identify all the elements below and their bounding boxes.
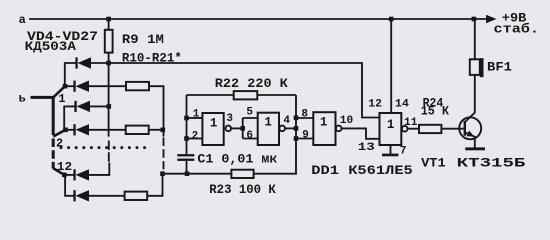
svg-text:8: 8 (301, 108, 308, 120)
wire diode to R10 (89, 85, 126, 87)
capacitor C1 plates (177, 154, 194, 156)
resistor R21 (row12) (125, 192, 148, 200)
node: junction dot row2/x163 bus (161, 128, 166, 133)
wire R23 to node x296 (254, 95, 296, 174)
transistor VT1 base bar (464, 121, 466, 136)
svg-text:VT1: VT1 (421, 156, 446, 171)
op-amp gate DD1.3 box (313, 112, 335, 145)
gate DD1.3 output bubble (336, 126, 342, 132)
wire diode to R21 (89, 195, 125, 197)
wire tap12 level row (64, 174, 74, 176)
node: junction dot tap2 (63, 128, 68, 133)
resistor R11 (row2) (126, 126, 149, 134)
svg-text:15 К: 15 К (421, 103, 449, 118)
wire diode anode to x108 bus corner (89, 163, 109, 175)
omission dots row (60, 146, 147, 149)
wire bus vertical thick dashed (52, 139, 55, 169)
wire x163 bus dashed (163, 138, 165, 170)
wire diode anode to rail2 dot (91, 62, 109, 64)
wire ь lead thick (31, 96, 54, 99)
node: junction dot on x108 bus (107, 104, 112, 109)
wire tap1 up-stub (65, 63, 76, 86)
svg-text:C1 0,01 мк: C1 0,01 мк (197, 151, 277, 166)
wire R22 feedback left (187, 94, 234, 96)
wire tap2 up-stub (64, 106, 75, 129)
wire gateD out to R24 (408, 128, 420, 130)
wire R22 right (257, 94, 296, 96)
wire x108 bus solid (108, 63, 110, 137)
gate DD1.4 output bubble (402, 126, 408, 132)
wire gateA out to connector (230, 127, 243, 129)
op-amp gate DD1.1 box (202, 113, 223, 145)
resistor R24 (419, 125, 441, 133)
wire bus vertical thick solid (52, 96, 55, 135)
wire gate A input 1 (187, 117, 203, 119)
wire rail1 +9V top rail (29, 18, 487, 20)
wire tap1 diagonal (53, 86, 65, 97)
diode VD row2 pitch (73, 124, 89, 135)
node: junction dot x163 bottom (160, 171, 165, 176)
svg-text:КТ315Б: КТ315Б (457, 156, 526, 171)
svg-text:12: 12 (57, 160, 72, 174)
svg-text:1: 1 (193, 108, 200, 120)
wire pin14 from rail1 (390, 19, 392, 113)
svg-text:14: 14 (395, 99, 409, 111)
node: junction dot rail1/BF1 (472, 17, 477, 22)
gate DD1.1 output bubble (226, 126, 232, 132)
capacitor C1 top lead (186, 95, 188, 154)
wire tap1 level row (65, 85, 74, 87)
sounder BF1 thick bar (480, 58, 484, 77)
svg-text:6: 6 (246, 130, 253, 142)
wire gate A input 2 (187, 138, 203, 140)
transistor VT1 emitter with arrow (465, 133, 475, 148)
resistor R10 (row1) (126, 82, 149, 90)
wire R10 to x163 bus corner (149, 86, 164, 136)
wire diode anode to x108 bus (90, 105, 109, 107)
ground bar DD1 (382, 154, 398, 157)
svg-text:BF1: BF1 (487, 59, 512, 74)
wire gate C input 9 (296, 138, 313, 140)
svg-text:10: 10 (340, 115, 353, 127)
gate DD1.2 output bubble (279, 126, 285, 132)
svg-text:1: 1 (320, 115, 328, 129)
node: junction dot x296 gateB output (294, 126, 299, 131)
node: junction dot rail1/R9 (106, 17, 111, 22)
node: junction dot tap1 (63, 84, 68, 89)
node: junction dot tap12 (62, 173, 67, 178)
node: junction dot x296 pin9 (294, 136, 299, 141)
svg-text:1: 1 (58, 92, 65, 106)
op-amp gate DD1.2 box (258, 113, 279, 145)
svg-text:5: 5 (246, 106, 253, 118)
wire input connector gate B (243, 118, 258, 139)
wire gateB out to node x296 (285, 127, 296, 129)
wire R9 top lead (108, 19, 110, 30)
wire tap2 diagonal (53, 130, 65, 137)
svg-text:R22 220 К: R22 220 К (215, 76, 288, 91)
sounder BF1 body (470, 59, 480, 75)
diode VD row2 enable (74, 101, 90, 112)
+9V arrow (486, 15, 497, 23)
svg-text:1: 1 (264, 115, 272, 129)
svg-text:R9 1M: R9 1M (122, 32, 164, 47)
svg-text:а: а (19, 13, 26, 27)
resistor R22 (234, 91, 258, 99)
node: junction dot gateA in2 (184, 136, 189, 141)
diode VD row1 pitch (73, 81, 89, 92)
capacitor C1 bottom lead (186, 161, 188, 174)
wire R21 to x163 bottom junction (147, 174, 162, 196)
svg-text:ь: ь (19, 92, 26, 106)
diode VD row12 enable (73, 169, 89, 180)
wire gate C input 8 (296, 117, 313, 119)
node: junction dot connector (240, 126, 245, 131)
diode VD row1 enable (75, 57, 91, 68)
svg-text:КД503А: КД503А (25, 39, 77, 54)
svg-text:2: 2 (192, 130, 199, 142)
wire R11 to x163 bus (149, 129, 164, 131)
node: junction dot gateA in1 (184, 116, 189, 121)
svg-text:стаб.: стаб. (494, 22, 540, 37)
node: junction dot rail1/pin14 (389, 17, 394, 22)
svg-text:1: 1 (210, 117, 218, 131)
ground bar VT1 emitter (465, 147, 485, 150)
svg-text:1: 1 (387, 118, 395, 132)
svg-text:12: 12 (368, 98, 382, 110)
svg-text:7: 7 (400, 145, 407, 157)
svg-text:3: 3 (226, 113, 233, 125)
svg-text:13: 13 (358, 142, 376, 154)
transistor VT1 circle (459, 117, 481, 139)
resistor R23 (231, 170, 253, 178)
op-amp gate DD1.4 box (380, 113, 402, 145)
node: junction dot C1 bottom (185, 171, 190, 176)
svg-text:R23 100 К: R23 100 К (209, 182, 276, 197)
wire pin7 to ground (390, 145, 392, 154)
svg-text:9: 9 (302, 129, 309, 141)
wire gateC out to gateD pin13 (342, 128, 380, 138)
transistor VT1 collector (465, 19, 475, 122)
diode VD row12 pitch (73, 190, 89, 201)
wire tap12 diagonal (53, 168, 64, 175)
wire tap12 down-stub (65, 175, 74, 196)
svg-text:4: 4 (283, 115, 290, 127)
wire rail2 to gate D pin12 (109, 63, 380, 118)
wire R9 bottom lead (108, 53, 110, 63)
wire x108 bus dashed (108, 141, 110, 162)
wire diode to R11 crossing bus (89, 129, 126, 131)
wire R24 to base (441, 128, 463, 130)
svg-text:DD1 К561ЛЕ5: DD1 К561ЛЕ5 (311, 163, 413, 178)
wire bottom rail to R23 (163, 173, 232, 175)
node: junction dot x296 pin8 (294, 116, 299, 121)
node: junction dot R9 bottom / rail2 (106, 61, 111, 66)
wire tap2 level row (66, 129, 75, 131)
resistor R9 (105, 30, 113, 53)
